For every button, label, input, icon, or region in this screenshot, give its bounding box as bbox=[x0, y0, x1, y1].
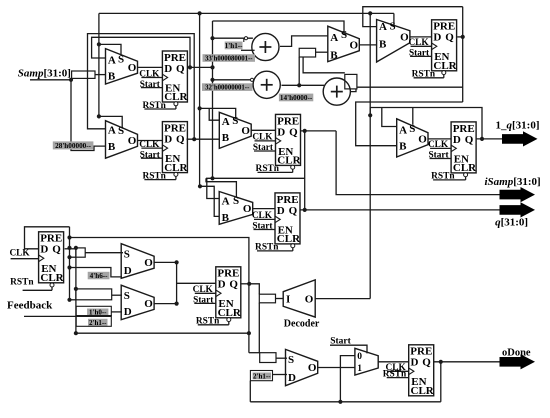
flip-flop U5R bbox=[408, 20, 457, 80]
wire: iSamp route bbox=[336, 131, 500, 195]
mux U2 (Samp select low) bbox=[106, 121, 138, 159]
wire: mux U10 S drop x=393.9 bbox=[393, 13, 395, 26]
bus box DFF U9F Q bbox=[76, 248, 85, 257]
svg-text:Decoder: Decoder bbox=[284, 319, 320, 330]
svg-text:O: O bbox=[308, 362, 317, 374]
constant 28'h00000 bbox=[53, 141, 94, 149]
svg-text:S: S bbox=[390, 21, 396, 33]
svg-text:q[31:0]: q[31:0] bbox=[495, 217, 528, 229]
flip-flop U8G bbox=[193, 267, 242, 327]
bus box decoder input bbox=[259, 294, 275, 303]
svg-text:B: B bbox=[222, 212, 230, 224]
wire: mux U2 output to DFF U2 D bbox=[138, 140, 163, 142]
wire: DFF U6 Q feedback over mux U11 bbox=[370, 108, 482, 139]
svg-text:Start: Start bbox=[253, 143, 274, 153]
svg-text:Start: Start bbox=[409, 49, 430, 59]
constant 2'h1 (feedback) bbox=[88, 319, 108, 326]
wire: decoder box to I pin bbox=[276, 298, 284, 300]
svg-text:CLK: CLK bbox=[9, 249, 30, 259]
wire: mux U11 A drop bbox=[382, 108, 397, 127]
svg-text:B: B bbox=[108, 141, 116, 153]
wire: DFF U2 Q east to mux U5 B bbox=[187, 138, 220, 140]
svg-text:Start: Start bbox=[193, 296, 214, 306]
wire: feedback wire bbox=[24, 315, 111, 317]
wire: mux U10 output to DFF U5 D bbox=[410, 36, 432, 38]
wire: DFF U5 Q loop top y=6.7 bbox=[363, 7, 463, 27]
wire: select net vertical x=199.6 bbox=[199, 13, 201, 186]
mux U10 (top right) bbox=[377, 20, 410, 63]
wire: rail branch to mux S1 D bbox=[70, 268, 123, 277]
wire: S2 box bottom stub bbox=[70, 299, 76, 301]
wire: 1'h0 box to mux S2 D bbox=[111, 311, 122, 313]
svg-text:RSTn: RSTn bbox=[10, 277, 34, 287]
svg-text:Q: Q bbox=[176, 63, 185, 75]
mux S3 bbox=[286, 349, 318, 385]
svg-text:iSamp[31:0]: iSamp[31:0] bbox=[485, 176, 541, 188]
wire: DFF U9F D feedback loop bbox=[25, 227, 70, 249]
svg-text:O: O bbox=[128, 135, 137, 147]
bus box mux S3 S input bbox=[260, 353, 276, 363]
wire: Samp to mux U1 B bbox=[95, 74, 106, 76]
svg-text:2'h1--: 2'h1-- bbox=[89, 319, 107, 327]
wire: mux U8 output to mux U10 B bbox=[359, 44, 376, 46]
wire: left rail x=69.5 bbox=[69, 227, 71, 300]
svg-text:oDone: oDone bbox=[502, 347, 531, 358]
svg-text:1: 1 bbox=[357, 364, 362, 374]
svg-text:33'h000080001--: 33'h000080001-- bbox=[205, 56, 253, 63]
wire: Q box to mux S1 S bbox=[85, 252, 123, 254]
svg-text:S: S bbox=[124, 249, 130, 261]
svg-text:Feedback: Feedback bbox=[7, 300, 53, 312]
svg-text:S: S bbox=[409, 123, 415, 135]
mux U11 (1_q select) bbox=[397, 119, 428, 157]
wire: Start select for small mux bbox=[330, 345, 367, 353]
wire: DFF U5 Q east bbox=[457, 36, 463, 38]
junction dots bbox=[198, 11, 202, 15]
wire: oDone loop from bottom rail bbox=[440, 362, 442, 402]
flip-flop U2R bbox=[139, 122, 188, 182]
svg-text:S: S bbox=[118, 54, 124, 66]
svg-text:D: D bbox=[218, 279, 226, 291]
wire: adder3 box to right bus y=87.2 bbox=[357, 86, 463, 88]
svg-text:D: D bbox=[40, 244, 48, 256]
svg-text:O: O bbox=[418, 134, 427, 146]
svg-text:A: A bbox=[222, 195, 230, 207]
wire: Q box stub bbox=[70, 256, 76, 258]
svg-text:CLR: CLR bbox=[277, 155, 301, 167]
svg-text:D: D bbox=[164, 134, 172, 146]
wire: decoder output to select rail bbox=[315, 298, 370, 300]
svg-text:Q: Q bbox=[422, 357, 431, 369]
wire: adder A3 output bbox=[351, 89, 356, 92]
wire: DFF U6 Q to 1_q port bbox=[476, 138, 505, 140]
wire: bus loop down-left to mux U11 B bbox=[356, 102, 463, 146]
svg-text:Q: Q bbox=[465, 134, 474, 146]
svg-text:B: B bbox=[379, 39, 387, 51]
wire: top select net horizontal y=13.4 bbox=[99, 12, 394, 14]
svg-text:O: O bbox=[144, 257, 153, 269]
constant 4'h6 bbox=[88, 272, 110, 280]
svg-text:Q: Q bbox=[229, 279, 238, 291]
svg-text:28'h00000--: 28'h00000-- bbox=[55, 142, 92, 150]
wire: DFF U9 Q to oDone bbox=[434, 361, 501, 363]
svg-text:A: A bbox=[222, 116, 230, 128]
svg-text:B: B bbox=[222, 132, 230, 144]
wire: mux S1 output bbox=[154, 261, 177, 263]
svg-text:Start: Start bbox=[428, 151, 449, 161]
svg-text:Start: Start bbox=[252, 222, 273, 232]
svg-text:Q: Q bbox=[176, 134, 185, 146]
svg-text:S: S bbox=[233, 195, 239, 207]
wire: DFF U4 Q to q port bbox=[300, 209, 500, 211]
svg-text:CLR: CLR bbox=[218, 307, 242, 319]
output port q bbox=[500, 202, 536, 217]
output port 1_q bbox=[502, 131, 538, 146]
mux S2 bbox=[121, 285, 154, 320]
flip-flop U9F bbox=[9, 232, 64, 290]
constant 1'h1 bbox=[225, 42, 243, 50]
input port Feedback bbox=[7, 300, 53, 312]
wire: mux output bus vertical bbox=[176, 262, 178, 303]
output port iSamp bbox=[500, 187, 536, 202]
wire: middle vertical x=212.5 bbox=[212, 21, 214, 178]
wire: mux U5 output to DFF U3 D bbox=[251, 129, 275, 131]
svg-text:Start: Start bbox=[140, 80, 161, 90]
wire: DFF U8 Q east bbox=[240, 283, 249, 285]
flip-flop U9H bbox=[383, 345, 435, 397]
adder A2 bbox=[253, 71, 280, 98]
output port oDone bbox=[500, 347, 536, 369]
wire: select net vertical x=370.2 down to decoder output bbox=[369, 13, 371, 298]
svg-text:A: A bbox=[108, 125, 116, 137]
wire: mux U11 output to DFF U6 D bbox=[428, 138, 451, 140]
flip-flop U4R bbox=[252, 193, 301, 253]
svg-text:4'h6--: 4'h6-- bbox=[90, 272, 109, 280]
svg-text:S: S bbox=[232, 115, 238, 127]
svg-text:A: A bbox=[399, 125, 407, 137]
svg-text:S: S bbox=[118, 125, 124, 137]
constant 14'h0000 bbox=[279, 94, 313, 102]
mux U8 (adder select) bbox=[328, 26, 360, 62]
wire: select net vertical x=98.9 bbox=[98, 13, 100, 116]
svg-text:B: B bbox=[330, 50, 338, 62]
mux U7 (row D middle) bbox=[219, 192, 253, 225]
flip-flop U3R bbox=[252, 114, 301, 174]
adder A3 bbox=[323, 78, 350, 105]
svg-text:A: A bbox=[379, 21, 387, 33]
input port Samp[31:0] bbox=[18, 68, 71, 80]
svg-text:S: S bbox=[288, 354, 294, 366]
wire: MUX U8 select from middle vertical y=21 bbox=[213, 21, 345, 33]
wire: mux U8 B box to B pin bbox=[316, 51, 328, 53]
wire: Samp input bbox=[30, 79, 71, 81]
wire: DFF U3 Q down to DFF U4 Q rail x=304.7 bbox=[304, 131, 306, 210]
mux SM (0/1 start select) bbox=[355, 348, 378, 375]
svg-text:O: O bbox=[241, 125, 250, 137]
svg-text:D: D bbox=[277, 205, 285, 217]
svg-text:Q: Q bbox=[445, 32, 454, 44]
wire: mux U5 A drop bbox=[209, 108, 219, 120]
wire: DFF U3 Q east bbox=[300, 130, 336, 132]
wire: long bottom-left wire y=333.2 bbox=[76, 332, 249, 334]
output port q[31:0] bbox=[495, 202, 535, 228]
wire: bottom rail bbox=[250, 401, 440, 403]
svg-text:1'h1--: 1'h1-- bbox=[225, 42, 244, 50]
svg-text:Start: Start bbox=[140, 150, 161, 160]
svg-text:S: S bbox=[124, 290, 130, 302]
output port iSamp[31:0] bbox=[485, 176, 541, 202]
wire: DFF U1 Q east bbox=[187, 66, 212, 68]
wire: adder A1 output to mux U8 A bbox=[280, 36, 328, 47]
output port 1_q[31:0] bbox=[496, 119, 540, 146]
wire: mux U5 S/A branch from x=199.6 bbox=[200, 108, 236, 118]
output port oDone bbox=[500, 354, 536, 369]
svg-text:D: D bbox=[277, 126, 285, 138]
wire: mux U7 output to DFF U4 D bbox=[253, 208, 275, 210]
wire: vertical x=259.3 to S3 box bbox=[258, 303, 260, 353]
wire: DFF U5 Q vertical bus x=462.7 bbox=[462, 7, 464, 102]
wire: mux U1 output to DFF U1 D bbox=[138, 66, 163, 68]
svg-text:1_q[31:0]: 1_q[31:0] bbox=[496, 119, 540, 131]
wire: DFF U8 Q to decoder input box bbox=[249, 284, 259, 294]
svg-text:Q: Q bbox=[52, 244, 61, 256]
wire: 2'h1 box to mux S3 D bbox=[273, 374, 288, 376]
wire: adder A2 upper input y=79.8 bbox=[213, 79, 254, 81]
svg-text:D: D bbox=[433, 32, 441, 44]
svg-text:0: 0 bbox=[357, 352, 362, 362]
svg-text:D: D bbox=[164, 63, 172, 75]
connector bubble adder A1 input bbox=[244, 37, 247, 40]
svg-text:D: D bbox=[453, 134, 461, 146]
svg-text:D: D bbox=[124, 265, 132, 277]
svg-text:14'h0000--: 14'h0000-- bbox=[280, 94, 313, 102]
wire: mux U2 S branch y=116.4 bbox=[99, 116, 122, 128]
wire: 1'h1 label to adder A1 lower input bbox=[241, 49, 255, 51]
svg-text:CLR: CLR bbox=[40, 272, 64, 284]
wire: adder A2 output east bbox=[282, 84, 325, 86]
wire: mux U7 select lines row D bbox=[206, 177, 305, 179]
svg-text:B: B bbox=[399, 141, 407, 153]
constant 33'h000080001 bbox=[203, 54, 256, 62]
svg-text:O: O bbox=[305, 293, 314, 305]
wire: DFF U2(Q) feedback loop top y=33.6 bbox=[88, 34, 195, 140]
svg-text:Q: Q bbox=[289, 126, 298, 138]
wire: adder A3 loop to mux U8 B box bbox=[303, 57, 345, 73]
wire: Samp vertical to lower mux bbox=[71, 80, 106, 151]
svg-text:O: O bbox=[243, 203, 252, 215]
wire: DFF U9F Q east bbox=[65, 248, 76, 250]
wire: mux U7 B entry bbox=[200, 186, 219, 216]
svg-text:CLR: CLR bbox=[411, 385, 435, 397]
svg-text:S: S bbox=[341, 29, 347, 41]
wire: 2'h1 box down to bottom rail bbox=[249, 381, 251, 402]
wire: mux U1 S branch y=44.4 bbox=[99, 44, 121, 54]
mux U1 (Samp select) bbox=[106, 49, 138, 84]
svg-text:O: O bbox=[144, 298, 153, 310]
wire: mux S3 output to small mux input 1 bbox=[318, 367, 355, 369]
svg-text:CLR: CLR bbox=[433, 60, 457, 72]
constant 2'h1 (bottom) bbox=[253, 373, 271, 380]
svg-text:Start: Start bbox=[330, 336, 351, 346]
adder A1 bbox=[252, 33, 279, 60]
svg-text:Samp[31:0]: Samp[31:0] bbox=[18, 68, 71, 80]
wire: mux U7 A drop bbox=[207, 178, 219, 198]
svg-text:Q: Q bbox=[289, 205, 298, 217]
wire: S2 box output bbox=[112, 294, 122, 296]
constant 1'h0 bbox=[87, 309, 108, 316]
bus box feeding mux U8 B bbox=[299, 48, 315, 57]
svg-text:2'h1--: 2'h1-- bbox=[253, 373, 271, 381]
svg-text:O: O bbox=[350, 40, 359, 52]
svg-text:O: O bbox=[128, 62, 137, 74]
svg-text:CLR: CLR bbox=[277, 233, 301, 245]
wire: bottom rail to const 0 input bbox=[340, 356, 355, 402]
svg-text:32'h00000001--: 32'h00000001-- bbox=[205, 85, 250, 92]
wire: mux S2 output bbox=[154, 303, 177, 305]
svg-text:A: A bbox=[330, 32, 338, 44]
constant 32'h00000001 bbox=[202, 83, 253, 91]
wire: rail branch y=237.5 to DFF U8 net bbox=[70, 238, 249, 353]
wire: mux U11 S drop bbox=[412, 108, 414, 125]
bus box adder A3 loop bbox=[345, 74, 357, 89]
bus box on Samp wire bbox=[72, 71, 95, 78]
decoder bbox=[283, 280, 320, 330]
mux S1 bbox=[121, 244, 154, 279]
wire: constant 1'h1 to adder A1 bbox=[213, 37, 253, 39]
svg-text:D: D bbox=[411, 357, 419, 369]
wire: bus to DFF U8 D bbox=[177, 282, 216, 284]
svg-text:D: D bbox=[288, 372, 296, 384]
wire: adder A2 output branch up to bus box bbox=[298, 57, 300, 85]
flip-flop U1R bbox=[139, 51, 188, 111]
svg-text:I: I bbox=[286, 293, 290, 305]
flip-flop U6R bbox=[428, 122, 477, 182]
wire: DFF U1(Q) feedback loop y=37.3 bbox=[92, 37, 190, 67]
svg-text:A: A bbox=[108, 55, 116, 67]
svg-text:D: D bbox=[124, 306, 132, 318]
bus box mux S2 S input bbox=[76, 289, 112, 300]
wire: rail corner into S3 box bbox=[249, 352, 260, 354]
connector bubble adder A2 input bbox=[250, 78, 253, 81]
wire: small mux output to DFF U9 D bbox=[378, 361, 409, 363]
svg-text:B: B bbox=[108, 70, 116, 82]
wire: S3 box to mux S3 S bbox=[276, 357, 287, 359]
mux U5 (row C middle) bbox=[219, 112, 251, 148]
wire: left rail x=75.9 bbox=[75, 248, 77, 333]
